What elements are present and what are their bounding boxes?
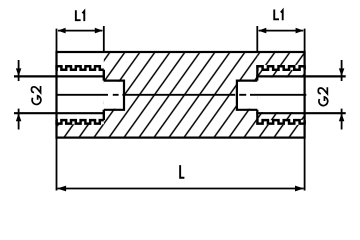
thread end vertical left <box>103 70 105 120</box>
dimension L1 left: extension lines <box>57 26 104 52</box>
thread minor line bottom-right / G2 right bottom extension <box>256 112 346 114</box>
thread bottom-right <box>257 120 304 124</box>
drill hole outline right <box>237 81 257 110</box>
thread bottom-left <box>57 120 104 124</box>
dimension G2 left: dimension line with outside arrows <box>18 60 20 130</box>
dimension G2 left: arrowheads <box>16 68 22 76</box>
part outline <box>57 52 305 138</box>
label G2 right (rotated) <box>318 87 327 105</box>
dimension G2 right: dimension line with outside arrows <box>341 60 343 130</box>
label G2 left (rotated) <box>31 86 40 104</box>
dimension L1 left: arrowheads <box>58 28 66 34</box>
white band behind top-right teeth gaps <box>257 65 304 70</box>
label L bottom <box>180 165 184 178</box>
dimension L1 right: dimension line <box>259 30 304 32</box>
centerline <box>56 94 306 96</box>
label L1 left <box>76 10 84 21</box>
thread minor line bottom-left / G2 left bottom extension <box>14 112 105 114</box>
thread top-right <box>257 66 304 70</box>
white thread bore strip right <box>257 78 303 113</box>
thread top-left <box>57 66 104 70</box>
hatching left bottom band <box>58 124 104 136</box>
white bore cavity left (drill box interior) <box>104 82 123 109</box>
thread minor line top-right / G2 right top extension <box>256 75 346 77</box>
white band behind bottom-right teeth gaps <box>257 120 304 125</box>
hatching middle block <box>104 53 257 136</box>
drill hole outline left <box>104 81 124 110</box>
hatching right thread block <box>257 53 303 136</box>
dimension L bottom: dimension line <box>58 188 304 190</box>
thread minor line top-left / G2 left top extension <box>14 75 105 77</box>
white bore cavity right (drill box interior) <box>238 82 257 109</box>
label L1 right <box>274 9 282 20</box>
dimension L1 right: extension lines <box>257 26 304 52</box>
dimension L bottom: arrowheads <box>57 186 66 192</box>
dimension G2 right: arrowheads <box>339 68 345 76</box>
thread end vertical right <box>256 70 258 120</box>
dimension L1 right: arrowheads <box>258 28 266 34</box>
dimension L bottom: extension lines <box>57 138 305 191</box>
dimension L1 left: dimension line <box>58 30 102 32</box>
